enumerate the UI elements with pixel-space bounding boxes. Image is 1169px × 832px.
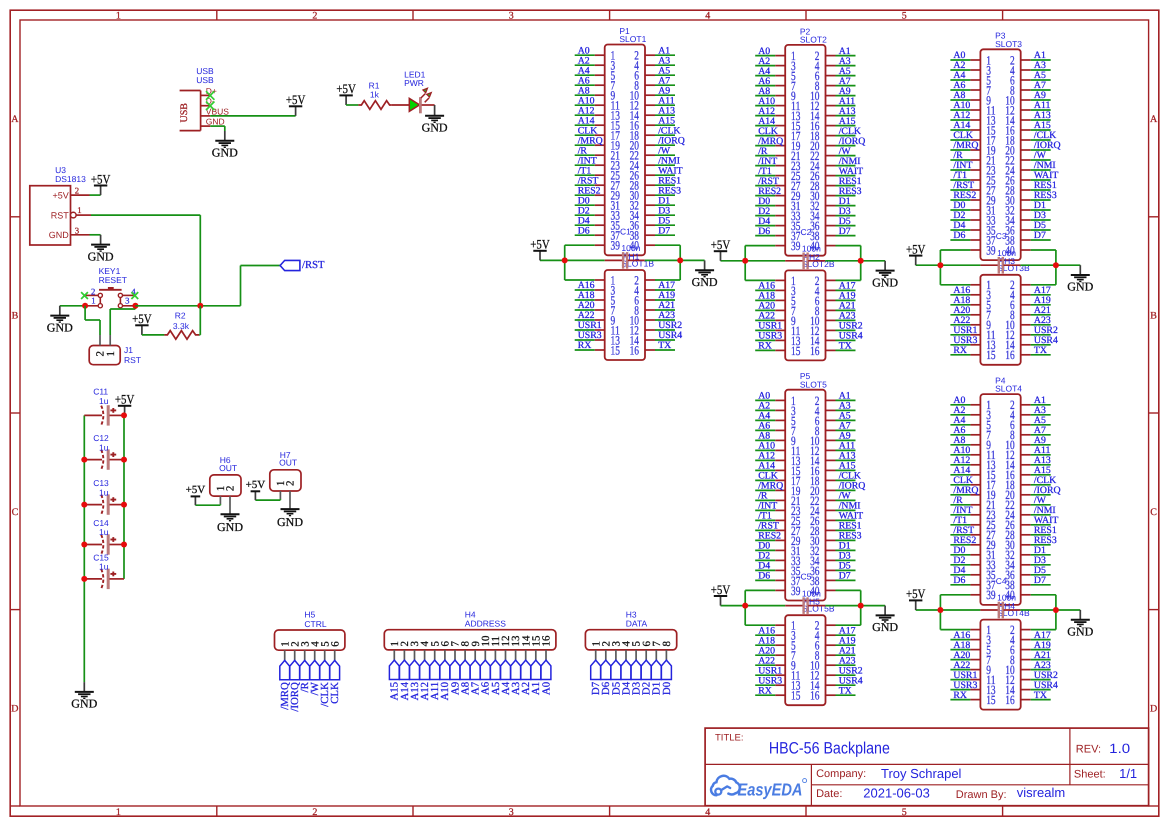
svg-text:1: 1 [91, 295, 95, 305]
svg-text:3: 3 [125, 295, 129, 305]
net label A10 (H4 pin 6) [439, 660, 451, 700]
svg-text:D7: D7 [658, 225, 670, 236]
wire H6 pin1 to +5V [195, 504, 220, 505]
wire/net A11 (P5 pin 12) [836, 441, 856, 452]
net label A11 (H4 pin 5) [429, 660, 441, 700]
wire/net D2 (P3 pin 33) [950, 210, 970, 221]
ground (LED1) [434, 105, 436, 116]
wire/net /RST (P5 pin 27) [755, 521, 779, 532]
wire/net A13 (P3 pin 14) [1031, 110, 1051, 121]
wire/net D7 (P1 pin 38) [655, 225, 675, 236]
wire/net D0 (P2 pin 31) [755, 196, 775, 207]
svg-text:2: 2 [285, 481, 297, 486]
connector PH1 SLOT1B [595, 251, 655, 360]
wire/net D0 (P4 pin 31) [950, 545, 970, 556]
svg-text:100n: 100n [997, 593, 1016, 603]
svg-text:GND: GND [872, 275, 898, 289]
svg-text:GND: GND [277, 515, 303, 529]
connector P4 SLOT4 [970, 376, 1030, 605]
svg-text:SLOT4: SLOT4 [995, 384, 1022, 394]
wire/net WAIT (P3 pin 26) [1031, 170, 1059, 181]
wire +5V branch (P3) [916, 250, 981, 285]
wire/net /CLK (P4 pin 18) [1031, 475, 1057, 486]
+5V power flag (P3) [906, 241, 926, 265]
wire H7 pin1 to +5V [255, 499, 280, 500]
svg-text:+5V: +5V [711, 237, 731, 252]
svg-text:DS1813: DS1813 [55, 174, 86, 184]
svg-text:SLOT3: SLOT3 [995, 39, 1022, 49]
wire/net A3 (P1 pin 4) [655, 55, 675, 66]
capacitor C12 1u [84, 433, 124, 470]
wire/net RX (PH4 pin 15) [950, 690, 970, 701]
net label A1 (H4 pin 15) [530, 660, 542, 695]
svg-text:16: 16 [630, 343, 639, 357]
wire/net A11 (P2 pin 12) [836, 96, 856, 107]
wire GND branch (P5) [825, 590, 885, 625]
wire/net /INT (P2 pin 23) [755, 156, 777, 167]
wire/net D5 (P1 pin 36) [655, 215, 675, 226]
connector PH2 SLOT2B [775, 252, 835, 361]
svg-text:A0: A0 [540, 682, 552, 695]
junction C13 negative [81, 502, 87, 508]
wire/net A8 (P1 pin 9) [575, 85, 595, 96]
wire/net /R (P3 pin 21) [950, 150, 970, 161]
connector PH4 SLOT4B [970, 601, 1030, 710]
wire/net A21 (PH1 pin 8) [655, 300, 675, 311]
wire/net D3 (P3 pin 34) [1031, 210, 1051, 221]
wire/net /T1 (P5 pin 25) [755, 511, 775, 522]
svg-text:HBC-56 Backplane: HBC-56 Backplane [769, 740, 890, 758]
wire/net USR1 (PH1 pin 11) [575, 320, 602, 331]
svg-text:SLOT2: SLOT2 [800, 35, 827, 45]
wire/net D0 (P3 pin 31) [950, 200, 970, 211]
wire/net A3 (P5 pin 4) [836, 401, 856, 412]
wire/net A16 (PH1 pin 3) [575, 280, 595, 291]
wire/net /R (P5 pin 21) [755, 491, 775, 502]
wire/net A0 (P1 pin 1) [575, 45, 595, 56]
wire U3 pin3 to ground [90, 234, 101, 236]
svg-text:1u: 1u [99, 562, 109, 572]
wire/net A8 (P2 pin 9) [755, 86, 775, 97]
wire/net A11 (P1 pin 12) [655, 95, 675, 106]
svg-text:D7: D7 [1034, 575, 1046, 586]
title block [705, 728, 1149, 806]
junction GND (P1) [677, 257, 683, 263]
net label D0 (H3 pin 8) [661, 660, 673, 695]
junction +5V (P5) [742, 603, 748, 609]
wire/net A9 (P2 pin 10) [836, 86, 856, 97]
svg-text:+5V: +5V [246, 479, 266, 491]
wire/net A19 (PH3 pin 6) [1031, 295, 1051, 306]
+5V power flag (P1) [530, 237, 550, 261]
LED LED1 PWR [404, 69, 435, 113]
wire/net /NMI (P4 pin 24) [1031, 505, 1056, 516]
wire/net A15 (P4 pin 16) [1031, 465, 1051, 476]
wire/net USR1 (PH4 pin 11) [950, 670, 977, 681]
wire/net A23 (PH1 pin 10) [655, 310, 675, 321]
wire/net A17 (PH1 pin 4) [655, 280, 675, 291]
wire/net D6 (P5 pin 37) [755, 571, 775, 582]
svg-text:/RST: /RST [302, 259, 325, 271]
net label D7 (H3 pin 1) [590, 660, 602, 695]
svg-text:CLK: CLK [329, 682, 341, 704]
svg-text:Company:: Company: [816, 768, 866, 780]
svg-text:1.0: 1.0 [1109, 741, 1130, 756]
svg-text:D6: D6 [578, 225, 590, 236]
wire/net A9 (P1 pin 10) [655, 85, 675, 96]
connector PH3 SLOT3B [970, 256, 1030, 365]
svg-text:+5V: +5V [906, 241, 926, 256]
net label D2 (H3 pin 6) [641, 660, 653, 695]
svg-text:C1: C1 [620, 226, 631, 236]
wire/net A15 (P2 pin 16) [836, 116, 856, 127]
junction at KEY1 pin1 [82, 303, 88, 309]
wire/net A13 (P2 pin 14) [836, 106, 856, 117]
wire/net A7 (P3 pin 8) [1031, 80, 1051, 91]
wire/net USR2 (PH1 pin 12) [655, 320, 682, 331]
+5V power flag (LED circuit) [336, 81, 356, 105]
wire/net A5 (P2 pin 6) [836, 66, 856, 77]
junction +5V (P3) [937, 262, 943, 268]
wire/net A21 (PH3 pin 8) [1031, 305, 1051, 316]
wire/net A23 (PH5 pin 10) [836, 655, 856, 666]
wire/net CLK (P2 pin 17) [755, 126, 778, 137]
wire/net D3 (P5 pin 34) [836, 551, 856, 562]
svg-text:8: 8 [661, 641, 673, 647]
capacitor C11 1u [84, 387, 124, 426]
junction C13 positive [121, 502, 127, 508]
svg-text:1k: 1k [370, 90, 380, 100]
wire/net A3 (P3 pin 4) [1031, 60, 1051, 71]
junction C14 positive [121, 542, 127, 548]
svg-text:GND: GND [47, 320, 73, 334]
svg-text:D: D [11, 703, 18, 714]
svg-text:1u: 1u [99, 442, 109, 452]
capacitor C3 100n [980, 231, 1020, 273]
wire/net A17 (PH3 pin 4) [1031, 285, 1051, 296]
wire/net A22 (PH5 pin 9) [755, 655, 775, 666]
wire/net A1 (P4 pin 2) [1031, 395, 1051, 406]
wire ground rail (capacitor bank) [83, 415, 85, 682]
wire/net D7 (P5 pin 38) [836, 571, 856, 582]
wire/net D4 (P1 pin 35) [575, 215, 595, 226]
svg-text:visrealm: visrealm [1017, 785, 1065, 800]
svg-text:100n: 100n [802, 244, 821, 254]
EasyEDA logo [711, 776, 807, 799]
wire/net A17 (PH5 pin 4) [836, 625, 856, 636]
+5V power flag (R2) [132, 311, 152, 335]
wire/net /MRQ (P5 pin 19) [755, 481, 783, 492]
wire/net USR4 (PH5 pin 14) [836, 675, 863, 686]
wire/net /T1 (P1 pin 25) [575, 165, 595, 176]
svg-text:J1: J1 [124, 345, 133, 355]
net label CLK (H5 pin 6) [329, 660, 341, 703]
wire/net A5 (P3 pin 6) [1031, 70, 1051, 81]
svg-text:TX: TX [839, 341, 852, 352]
wire/net A2 (P5 pin 3) [755, 401, 775, 412]
svg-text:100n: 100n [621, 243, 640, 253]
wire/net USR3 (PH3 pin 13) [950, 335, 977, 346]
junction C11 positive [121, 412, 127, 418]
wire/net /T1 (P2 pin 25) [755, 166, 775, 177]
connector PH5 SLOT5B [775, 597, 835, 706]
wire/net A10 (P3 pin 11) [950, 100, 970, 111]
svg-text:OUT: OUT [279, 458, 297, 468]
wire/net USR4 (PH3 pin 14) [1031, 335, 1058, 346]
wire/net D5 (P4 pin 36) [1031, 565, 1051, 576]
wire/net /INT (P1 pin 23) [575, 155, 597, 166]
no-connect flag on USB D- [206, 102, 214, 111]
svg-text:RST: RST [124, 355, 141, 365]
svg-text:16: 16 [1005, 693, 1014, 707]
wire +5V to R1 [346, 104, 358, 106]
svg-text:D6: D6 [953, 575, 965, 586]
wire/net A14 (P5 pin 15) [755, 461, 775, 472]
wire/net D5 (P2 pin 36) [836, 216, 856, 227]
svg-text:3: 3 [75, 225, 79, 235]
wire/net A6 (P1 pin 7) [575, 75, 595, 86]
wire/net /RST (P3 pin 27) [950, 180, 974, 191]
wire/net RX (PH1 pin 15) [575, 340, 595, 351]
svg-text:GND: GND [872, 620, 898, 634]
wire/net A1 (P1 pin 2) [655, 45, 675, 56]
wire/net A20 (PH1 pin 7) [575, 300, 595, 311]
svg-text:2021-06-03: 2021-06-03 [863, 786, 930, 801]
wire/net RES1 (P2 pin 28) [836, 176, 862, 187]
wire VBUS to +5V [210, 115, 295, 117]
ground (H7) [277, 509, 303, 529]
svg-text:1u: 1u [99, 487, 109, 497]
wire/net /T1 (P3 pin 25) [950, 170, 970, 181]
junction C15 negative [81, 576, 87, 582]
no-connect flag on USB D+ [206, 91, 214, 100]
wire/net /W (P1 pin 22) [655, 145, 675, 156]
wire/net USR1 (PH3 pin 11) [950, 325, 977, 336]
svg-text:D7: D7 [1034, 230, 1046, 241]
wire/net /NMI (P3 pin 24) [1031, 160, 1056, 171]
svg-text:C4: C4 [996, 576, 1007, 586]
connector H3 DATA [585, 609, 676, 660]
wire/net D4 (P5 pin 35) [755, 561, 775, 572]
junction C12 negative [81, 457, 87, 463]
ground (KEY1) [47, 306, 73, 335]
wire/net /IORQ (P4 pin 20) [1031, 485, 1061, 496]
capacitor C1 100n [605, 226, 645, 268]
wire/net RES2 (P1 pin 29) [575, 185, 601, 196]
connector H6 OUT [210, 455, 241, 513]
wire/net TX (PH1 pin 16) [655, 340, 675, 351]
wire/net A5 (P5 pin 6) [836, 411, 856, 422]
wire/net USR2 (PH2 pin 12) [836, 321, 863, 332]
svg-text:39: 39 [791, 239, 800, 253]
wire/net A15 (P5 pin 16) [836, 461, 856, 472]
wire/net A18 (PH4 pin 5) [950, 640, 970, 651]
wire/net A16 (PH5 pin 3) [755, 625, 775, 636]
wire/net /CLK (P3 pin 18) [1031, 130, 1057, 141]
ground (P2) [872, 261, 898, 290]
wire/net TX (PH5 pin 16) [836, 685, 856, 696]
wire GND branch (P4) [1020, 595, 1080, 630]
wire/net RES2 (P4 pin 29) [950, 535, 976, 546]
wire/net A5 (P4 pin 6) [1031, 415, 1051, 426]
wire/net D4 (P2 pin 35) [755, 216, 775, 227]
wire/net A10 (P1 pin 11) [575, 95, 595, 106]
capacitor C13 1u [84, 478, 124, 515]
wire/net A8 (P3 pin 9) [950, 90, 970, 101]
wire/net A6 (P4 pin 7) [950, 425, 970, 436]
svg-text:+5V: +5V [530, 237, 550, 252]
wire/net D7 (P3 pin 38) [1031, 230, 1051, 241]
wire/net A5 (P1 pin 6) [655, 65, 675, 76]
svg-text:TITLE:: TITLE: [715, 732, 744, 743]
wire/net /RST (P4 pin 27) [950, 525, 974, 536]
net label /R (H5 pin 3) [299, 660, 311, 692]
ground (H6) [217, 514, 243, 534]
wire/net USR3 (PH2 pin 13) [755, 331, 782, 342]
wire/net CLK (P5 pin 17) [755, 471, 778, 482]
svg-text:2: 2 [75, 186, 79, 196]
wire/net WAIT (P2 pin 26) [836, 166, 864, 177]
svg-text:39: 39 [791, 584, 800, 598]
wire/net A10 (P2 pin 11) [755, 96, 775, 107]
svg-text:5: 5 [902, 807, 907, 818]
wire/net A10 (P5 pin 11) [755, 441, 775, 452]
wire/net A19 (PH5 pin 6) [836, 635, 856, 646]
wire/net A7 (P4 pin 8) [1031, 425, 1051, 436]
wire/net A7 (P2 pin 8) [836, 76, 856, 87]
ground (P3) [1067, 265, 1093, 294]
wire/net /NMI (P1 pin 24) [655, 155, 680, 166]
capacitor C2 100n [785, 227, 825, 269]
wire/net A20 (PH3 pin 7) [950, 305, 970, 316]
wire/net A9 (P4 pin 10) [1031, 435, 1051, 446]
net label A9 (H4 pin 7) [449, 660, 461, 695]
svg-text:4: 4 [705, 807, 710, 818]
wire/net /CLK (P1 pin 18) [655, 125, 681, 136]
wire/net /R (P4 pin 21) [950, 495, 970, 506]
svg-text:5: 5 [902, 11, 907, 22]
svg-text:GND: GND [217, 520, 243, 534]
wire/net /MRQ (P1 pin 19) [575, 135, 603, 146]
connector H4 ADDRESS [384, 609, 556, 660]
svg-text:1u: 1u [99, 396, 109, 406]
wire GND branch (P3) [1020, 250, 1080, 285]
svg-text:15: 15 [791, 689, 800, 703]
wire/net A15 (P1 pin 16) [655, 115, 675, 126]
svg-text:ADDRESS: ADDRESS [465, 619, 506, 629]
+5V power flag (P5) [711, 582, 731, 606]
net label A7 (H4 pin 9) [470, 660, 482, 695]
wire/net RES1 (P4 pin 28) [1031, 525, 1057, 536]
wire/net A4 (P4 pin 5) [950, 415, 970, 426]
net label D4 (H3 pin 4) [620, 660, 632, 695]
wire/net A0 (P4 pin 1) [950, 395, 970, 406]
+5V power flag (H6) [186, 484, 206, 505]
wire/net D2 (P4 pin 33) [950, 555, 970, 566]
junction +5V (P4) [937, 607, 943, 613]
wire/net /MRQ (P2 pin 19) [755, 136, 783, 147]
ground (P1) [692, 260, 718, 289]
net label A3 (H4 pin 13) [510, 660, 522, 695]
wire +5V branch (P1) [540, 245, 605, 280]
svg-text:GND: GND [206, 117, 225, 127]
wire/net /CLK (P2 pin 18) [836, 126, 862, 137]
svg-text:+5V: +5V [91, 171, 111, 186]
svg-text:+5V: +5V [286, 92, 306, 107]
wire +5V branch (P4) [916, 595, 981, 630]
svg-text:Sheet:: Sheet: [1074, 769, 1106, 781]
+5V power flag (USB) [286, 92, 306, 116]
svg-text:C: C [12, 507, 19, 518]
wire/net /IORQ (P5 pin 20) [836, 481, 866, 492]
svg-text:USB: USB [196, 75, 214, 85]
wire/net RES2 (P2 pin 29) [755, 186, 781, 197]
wire/net D3 (P1 pin 34) [655, 205, 675, 216]
wire/net D6 (P1 pin 37) [575, 225, 595, 236]
wire/net /W (P5 pin 22) [836, 491, 856, 502]
wire/net A9 (P5 pin 10) [836, 431, 856, 442]
wire/net A21 (PH5 pin 8) [836, 645, 856, 656]
IC U3 DS1813 reset supervisor [30, 165, 91, 245]
wire/net A7 (P5 pin 8) [836, 421, 856, 432]
wire/net /IORQ (P3 pin 20) [1031, 140, 1061, 151]
wire/net A6 (P2 pin 7) [755, 76, 775, 87]
svg-text:RX: RX [758, 341, 772, 352]
net label D5 (H3 pin 3) [610, 660, 622, 695]
wire/net /MRQ (P4 pin 19) [950, 485, 978, 496]
wire/net A18 (PH5 pin 5) [755, 635, 775, 646]
svg-text:OUT: OUT [219, 463, 237, 473]
svg-text:39: 39 [986, 243, 995, 257]
svg-text:100n: 100n [802, 588, 821, 598]
wire/net A2 (P2 pin 3) [755, 56, 775, 67]
svg-text:100n: 100n [997, 248, 1016, 258]
svg-text:GND: GND [212, 146, 238, 160]
wire/net TX (PH2 pin 16) [836, 341, 856, 352]
svg-text:D0: D0 [661, 682, 673, 695]
wire/net /NMI (P5 pin 24) [836, 501, 861, 512]
wire/net D2 (P2 pin 33) [755, 206, 775, 217]
pushbutton KEY1 RESET [85, 266, 137, 308]
wire/net A13 (P5 pin 14) [836, 451, 856, 462]
net label D1 (H3 pin 7) [651, 660, 663, 695]
wire/net D5 (P3 pin 36) [1031, 220, 1051, 231]
svg-text:GND: GND [422, 121, 448, 135]
wire/net RX (PH2 pin 15) [755, 341, 775, 352]
junction reset net / R2 [197, 303, 203, 309]
wire/net RES1 (P1 pin 28) [655, 175, 681, 186]
svg-text:GND: GND [1067, 625, 1093, 639]
wire/net A2 (P4 pin 3) [950, 405, 970, 416]
svg-text:C2: C2 [801, 227, 812, 237]
wire/net RX (PH3 pin 15) [950, 345, 970, 356]
wire/net USR2 (PH5 pin 12) [836, 665, 863, 676]
wire/net /R (P2 pin 21) [755, 146, 775, 157]
wire/net USR4 (PH1 pin 14) [655, 330, 682, 341]
svg-text:15: 15 [986, 693, 995, 707]
wire/net A18 (PH2 pin 5) [755, 291, 775, 302]
svg-text:B: B [12, 311, 19, 322]
svg-text:GND: GND [71, 697, 97, 711]
wire/net A14 (P4 pin 15) [950, 465, 970, 476]
wire R2 to reset net [199, 306, 200, 335]
wire/net RES3 (P2 pin 30) [836, 186, 862, 197]
wire/net D7 (P2 pin 38) [836, 226, 856, 237]
svg-text:1/1: 1/1 [1119, 766, 1137, 781]
svg-text:TX: TX [1034, 690, 1047, 701]
resistor R2 3.3k [164, 311, 199, 340]
wire/net D1 (P3 pin 32) [1031, 200, 1051, 211]
